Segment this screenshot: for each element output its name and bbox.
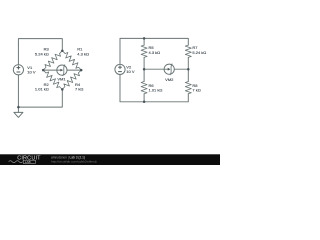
svg-text:7 kΩ: 7 kΩ — [75, 87, 83, 92]
svg-text:LAB: LAB — [25, 160, 31, 164]
svg-text:http:⁄⁄circuitlab.com⁄cqfsb2wh: http:⁄⁄circuitlab.com⁄cqfsb2whbndj — [51, 159, 97, 163]
svg-text:1.01 kΩ: 1.01 kΩ — [149, 88, 163, 93]
svg-text:VM2: VM2 — [165, 77, 174, 82]
svg-text:5.24 kΩ: 5.24 kΩ — [192, 50, 206, 55]
svg-text:10 V: 10 V — [126, 69, 135, 74]
svg-text:5.24 kΩ: 5.24 kΩ — [35, 52, 49, 57]
svg-text:7 kΩ: 7 kΩ — [192, 88, 200, 93]
svg-text:10 V: 10 V — [27, 70, 36, 75]
svg-text:4.3 kΩ: 4.3 kΩ — [77, 52, 89, 57]
svg-text:4.3 kΩ: 4.3 kΩ — [149, 50, 161, 55]
svg-text:VM1: VM1 — [57, 76, 66, 81]
svg-text:1.01 kΩ: 1.01 kΩ — [35, 87, 49, 92]
